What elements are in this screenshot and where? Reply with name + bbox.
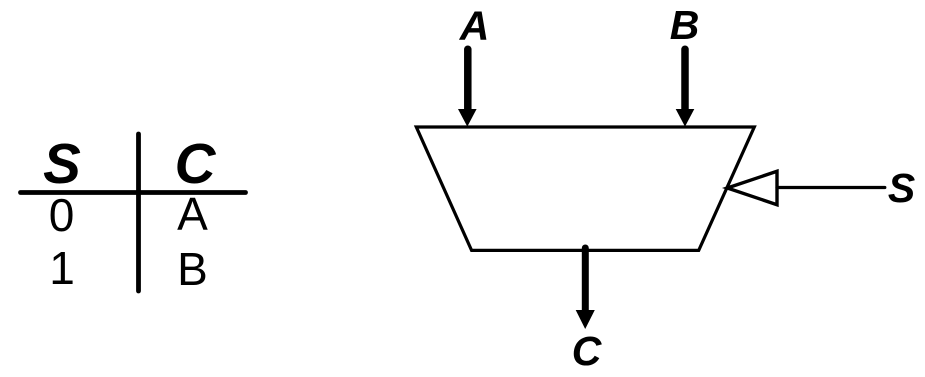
svg-text:S: S xyxy=(888,165,915,211)
input B wire arrow xyxy=(676,49,695,126)
svg-text:B: B xyxy=(670,2,700,48)
truth table header S xyxy=(43,132,81,195)
label S xyxy=(888,165,915,211)
svg-text:B: B xyxy=(177,243,208,295)
truth table cell C=A xyxy=(177,188,208,240)
mux U1 trapezoid body xyxy=(416,127,754,250)
svg-text:C: C xyxy=(572,328,603,374)
label C xyxy=(572,328,603,374)
truth table cell C=B xyxy=(177,243,208,295)
truth table vertical rule xyxy=(136,134,141,291)
truth table horizontal rule xyxy=(21,190,246,195)
input A wire arrow xyxy=(458,49,477,126)
truth table cell S=1 xyxy=(49,242,75,294)
svg-text:0: 0 xyxy=(49,189,75,241)
output C wire arrow xyxy=(576,248,595,329)
label B xyxy=(670,2,700,48)
svg-text:C: C xyxy=(175,132,217,195)
select S wire xyxy=(777,186,885,189)
label A xyxy=(459,3,490,49)
svg-text:A: A xyxy=(459,3,490,49)
truth table cell S=0 xyxy=(49,189,75,241)
svg-text:1: 1 xyxy=(49,242,75,294)
truth table header C xyxy=(175,132,217,195)
svg-text:S: S xyxy=(43,132,81,195)
select S open triangle xyxy=(727,171,777,204)
svg-text:A: A xyxy=(177,188,208,240)
